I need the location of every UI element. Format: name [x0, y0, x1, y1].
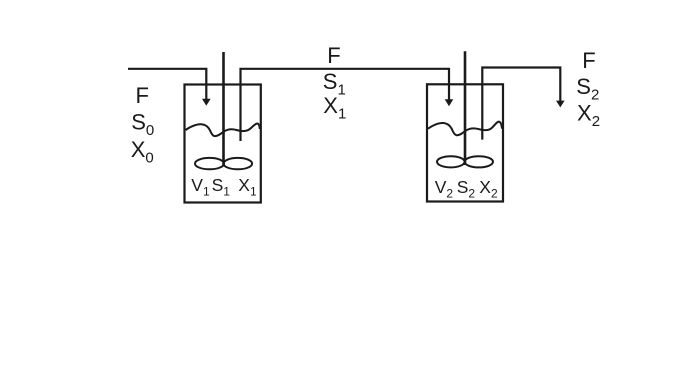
svg-text:F: F [327, 43, 340, 68]
svg-text:F: F [136, 83, 149, 108]
svg-text:F: F [582, 48, 595, 73]
